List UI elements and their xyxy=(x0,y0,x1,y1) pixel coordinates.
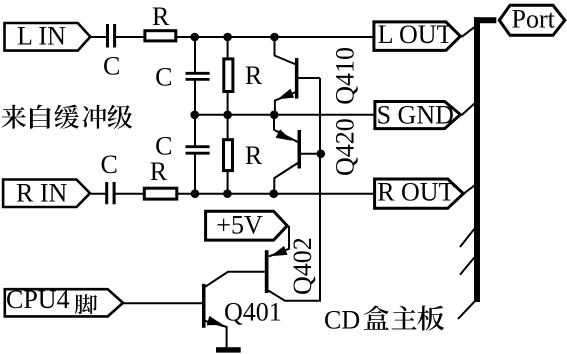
svg-text:C: C xyxy=(155,131,172,160)
svg-text:R: R xyxy=(245,61,263,90)
svg-text:+5V: +5V xyxy=(216,211,263,240)
svg-text:CPU4: CPU4 xyxy=(6,285,70,314)
svg-text:Port: Port xyxy=(512,5,556,34)
svg-text:R: R xyxy=(245,141,263,170)
svg-text:C: C xyxy=(103,51,120,80)
svg-text:C: C xyxy=(101,150,118,179)
svg-text:Q410: Q410 xyxy=(331,47,360,105)
svg-text:C: C xyxy=(155,63,172,92)
svg-text:Q401: Q401 xyxy=(224,297,282,326)
svg-text:R: R xyxy=(150,157,168,186)
svg-text:Q402: Q402 xyxy=(288,237,317,295)
svg-text:R: R xyxy=(152,2,170,31)
svg-text:L IN: L IN xyxy=(17,22,66,51)
svg-text:Q420: Q420 xyxy=(331,118,360,176)
svg-text:R OUT: R OUT xyxy=(377,178,454,207)
svg-text:L OUT: L OUT xyxy=(378,20,453,49)
svg-text:R IN: R IN xyxy=(16,178,68,207)
svg-text:CD: CD xyxy=(324,305,360,334)
svg-text:S GND: S GND xyxy=(377,101,454,130)
